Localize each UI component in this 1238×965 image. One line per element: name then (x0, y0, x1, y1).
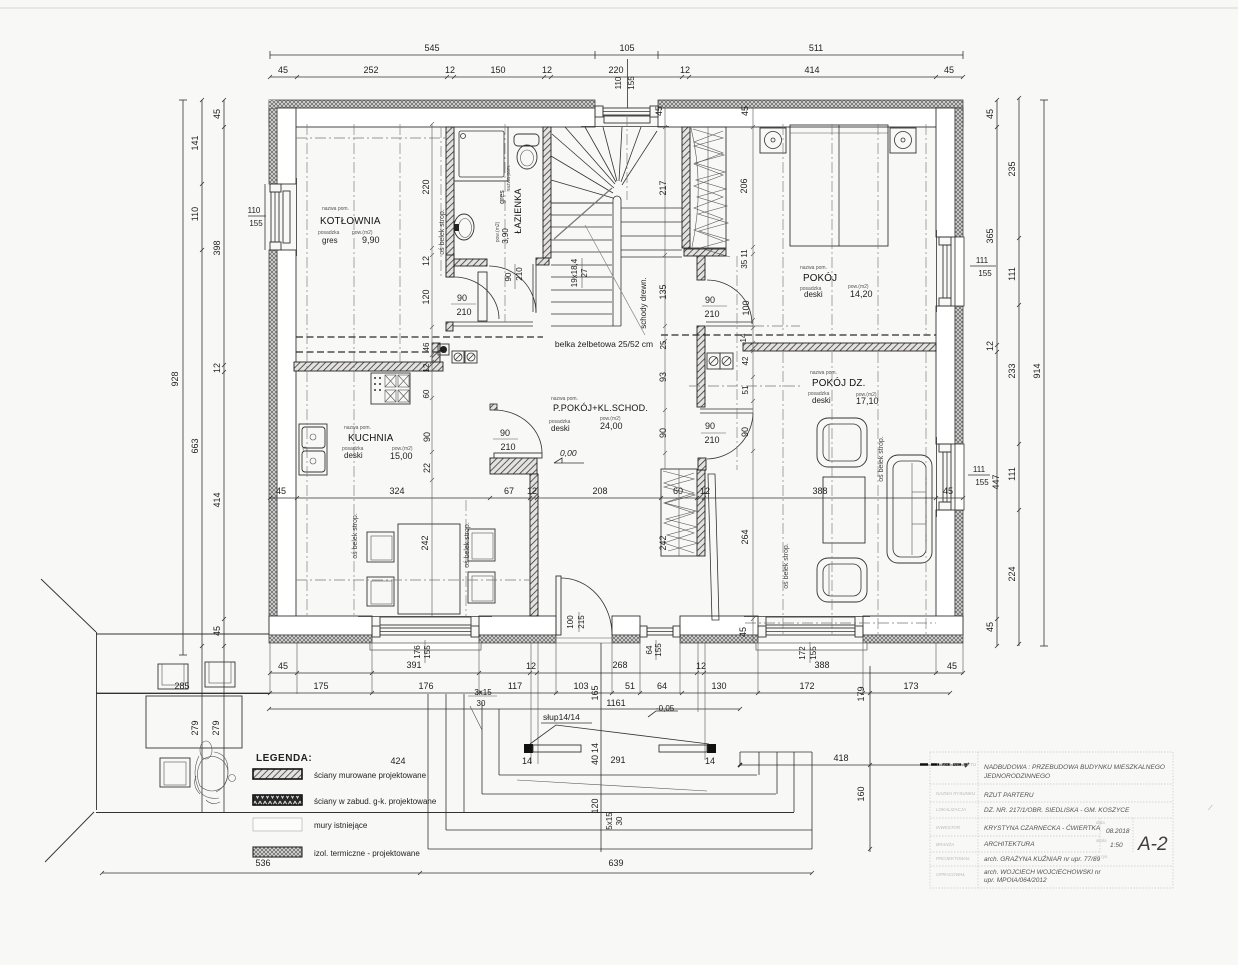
svg-text:nazwa pom.: nazwa pom. (800, 265, 827, 271)
axis horizontal kitchen (296, 579, 530, 581)
svg-text:110: 110 (248, 206, 261, 215)
svg-text:447: 447 (991, 474, 1001, 489)
svg-text:45: 45 (738, 627, 748, 637)
wall horn SE of bathroom (536, 258, 549, 265)
wall jamb west of bath door (446, 255, 454, 277)
svg-text:arch. GRAŻYNA KUŹNIAR nr upr.: arch. GRAŻYNA KUŹNIAR nr upr. 77/89 (984, 854, 1101, 863)
window right lower (111) (937, 437, 965, 517)
svg-text:210: 210 (704, 435, 719, 445)
svg-text:upr. MPOIA/064/2012: upr. MPOIA/064/2012 (984, 877, 1047, 884)
axis A5 bath (504, 124, 506, 322)
person on wheelchair (195, 741, 236, 804)
title texts (983, 764, 1165, 884)
svg-text:105: 105 (619, 43, 634, 53)
svg-text:NAZWA RYSUNKU: NAZWA RYSUNKU (936, 791, 976, 796)
svg-text:14: 14 (739, 333, 748, 342)
svg-text:176: 176 (418, 681, 433, 691)
dim top line 2 (268, 75, 965, 79)
scan artifact line (0, 7, 1238, 9)
svg-text:155: 155 (809, 646, 818, 660)
stairs newel rail (613, 196, 621, 326)
svg-text:słup14/14: słup14/14 (543, 712, 580, 722)
chair g3 (160, 758, 190, 787)
svg-text:220: 220 (421, 179, 431, 194)
svg-text:90: 90 (740, 427, 750, 437)
svg-text:1:50: 1:50 (1110, 842, 1123, 849)
svg-text:P.POKÓJ+KL.SCHOD.: P.POKÓJ+KL.SCHOD. (553, 403, 648, 413)
level -0,05 mark (648, 711, 678, 717)
sliding door sliver (708, 474, 719, 620)
svg-text:izol. termiczne - projektowane: izol. termiczne - projektowane (314, 849, 420, 858)
svg-text:19x18,4: 19x18,4 (570, 258, 579, 287)
svg-text:LEGENDA:: LEGENDA: (256, 753, 312, 764)
wall closet partition (697, 470, 705, 556)
svg-text:12: 12 (212, 363, 222, 373)
svg-text:24,00: 24,00 (600, 421, 623, 431)
title block dim end dashes (920, 763, 967, 766)
svg-text:220: 220 (608, 65, 623, 75)
wall bottom (masonry band) (269, 616, 963, 635)
coffee table (823, 477, 865, 543)
svg-text:210: 210 (704, 309, 719, 319)
dim left line inner (222, 98, 226, 813)
svg-text:nazwa pom.: nazwa pom. (506, 165, 512, 192)
svg-text:45: 45 (947, 661, 957, 671)
svg-text:242: 242 (420, 535, 430, 550)
svg-text:nazwa pom.: nazwa pom. (322, 206, 349, 212)
svg-text:30: 30 (615, 816, 624, 825)
svg-text:414: 414 (212, 492, 222, 507)
porch small diagonal left (470, 706, 482, 730)
svg-text:nazwa pom.: nazwa pom. (344, 425, 371, 431)
wall left (masonry band) (277, 108, 296, 184)
rotated porch labels (190, 685, 866, 829)
plot west edge (96, 632, 98, 810)
svg-text:155: 155 (978, 269, 992, 278)
kitchen table (398, 524, 460, 614)
axis A3 (399, 124, 401, 362)
axis pokoj dz horizontal (689, 385, 800, 387)
svg-text:POKÓJ DZ.: POKÓJ DZ. (812, 378, 866, 389)
dim right line A (995, 98, 999, 648)
door kitchen (90) (490, 404, 542, 458)
svg-text:135: 135 (658, 284, 668, 299)
rotated bottom labels (413, 612, 818, 663)
svg-text:ściany murowane projektowane: ściany murowane projektowane (314, 771, 427, 780)
center axis below building (600, 643, 602, 852)
terrace line y812 (96, 812, 794, 814)
svg-text:35 11: 35 11 (740, 249, 749, 269)
axis A6 kitchen (465, 500, 467, 616)
stairs right flight treads (621, 208, 682, 257)
wall block below bedroom door (697, 326, 705, 407)
svg-text:217: 217 (658, 180, 668, 195)
extension lines from building bottom (270, 637, 963, 764)
svg-text:TEMAT PROJEKTU: TEMAT PROJEKTU (936, 762, 977, 767)
axis horizontal pokojdz bottom (745, 622, 936, 624)
insulation top (269, 100, 963, 108)
lower closet with hangers (661, 469, 698, 556)
wall kitchen/hall L horizontal (490, 458, 537, 474)
svg-text:155: 155 (975, 478, 989, 487)
svg-text:155: 155 (627, 76, 636, 90)
wall bathroom south bar (454, 259, 487, 266)
svg-text:215: 215 (577, 615, 586, 629)
svg-text:45: 45 (654, 106, 664, 116)
wall right (masonry band) (936, 108, 955, 237)
plot line y634 (96, 633, 269, 635)
svg-text:INWESTOR: INWESTOR (936, 825, 961, 830)
legend swatch mury istniejace (253, 818, 302, 831)
svg-text:14: 14 (590, 743, 600, 753)
porch step left verticals (428, 694, 499, 849)
axis horizontal bedroom south (753, 325, 800, 327)
porch step bottoms (428, 775, 812, 849)
svg-text:160: 160 (856, 786, 866, 801)
chair k4 (468, 572, 495, 603)
chair k1 (367, 532, 394, 562)
svg-text:291: 291 (610, 755, 625, 765)
svg-text:-0,05: -0,05 (656, 704, 675, 713)
svg-text:179: 179 (856, 686, 866, 701)
desk (146, 696, 242, 748)
svg-text:45: 45 (740, 106, 750, 116)
svg-text:1161: 1161 (606, 698, 625, 708)
dim vertical x868 (868, 666, 872, 852)
svg-text:100: 100 (741, 300, 751, 315)
room lazienka (rotated) (495, 165, 523, 244)
wall schody/szafa (682, 127, 690, 248)
axis A1 (306, 124, 308, 616)
svg-text:176: 176 (413, 645, 422, 659)
svg-text:data: data (1096, 820, 1105, 825)
svg-text:17,10: 17,10 (856, 396, 879, 406)
dim bottom B1 (268, 671, 965, 675)
insulation right (955, 108, 963, 237)
stairs going line (554, 188, 612, 239)
title faint row captions (936, 762, 977, 877)
svg-text:268: 268 (612, 660, 627, 670)
svg-text:42: 42 (741, 356, 750, 365)
wall hall/pokoj dz horizontal (743, 343, 936, 351)
room kuchnia (342, 425, 413, 461)
svg-text:224: 224 (1007, 566, 1017, 581)
svg-text:285: 285 (174, 681, 189, 691)
level 0,00 mark hall (554, 458, 584, 463)
plot diagonal top (41, 579, 96, 632)
svg-text:08.2018: 08.2018 (1106, 828, 1130, 835)
legend swatch izolacja (253, 847, 302, 857)
svg-text:deski: deski (551, 424, 570, 433)
svg-text:22: 22 (422, 463, 432, 473)
stove (371, 373, 410, 404)
svg-text:NADBUDOWA : PRZEBUDOWA BUDYNK: NADBUDOWA : PRZEBUDOWA BUDYNKU MIESZKALN… (984, 764, 1165, 771)
svg-text:deski: deski (344, 451, 363, 460)
svg-text:12: 12 (526, 661, 536, 671)
svg-text:100: 100 (566, 615, 575, 629)
washer boxes hall (707, 353, 733, 369)
svg-text:OPRACOWAŁ: OPRACOWAŁ (936, 872, 966, 877)
svg-text:111: 111 (1007, 467, 1017, 481)
window bottom W2 (64) (640, 626, 680, 637)
stairs lower flight treads (551, 203, 621, 326)
chair g2 (205, 662, 235, 687)
dim right line B (1017, 96, 1021, 646)
dim mid horizontal line (268, 496, 965, 500)
svg-text:155: 155 (423, 645, 432, 659)
svg-text:90: 90 (457, 293, 467, 303)
window left (110) (270, 178, 297, 256)
legend swatch gk (253, 795, 302, 805)
dim right window upper 111/155 (970, 265, 996, 267)
axis horizontal kotlownia (296, 137, 446, 139)
beam left pair (296, 336, 543, 338)
svg-text:398: 398 (212, 240, 222, 255)
svg-text:536: 536 (255, 858, 270, 868)
toilet (514, 134, 539, 169)
svg-text:12: 12 (422, 363, 431, 372)
dim left line 928 (179, 100, 187, 655)
wall block corridor west (446, 322, 453, 331)
svg-text:14: 14 (705, 756, 715, 766)
svg-text:oś belek strop.: oś belek strop. (464, 522, 471, 568)
wall kitchen north bar (294, 362, 443, 371)
svg-text:165: 165 (590, 685, 600, 700)
svg-text:111: 111 (973, 465, 986, 474)
svg-text:51: 51 (741, 385, 750, 394)
dim line 418 (738, 763, 969, 767)
nightstand right with lamp (890, 128, 916, 153)
porch step right verticals (740, 752, 812, 849)
wall corridor south edge lines (452, 322, 533, 326)
svg-text:POKÓJ: POKÓJ (803, 273, 837, 284)
svg-text:155: 155 (249, 219, 263, 228)
svg-text:RZUT PARTERU: RZUT PARTERU (984, 792, 1034, 799)
dim left line mid (200, 98, 204, 813)
svg-text:45: 45 (944, 65, 954, 75)
door bottom entry (100) (548, 576, 620, 643)
svg-text:141: 141 (190, 135, 200, 150)
svg-text:oś belek strop.: oś belek strop. (439, 209, 446, 255)
svg-text:90: 90 (705, 421, 715, 431)
svg-text:110: 110 (190, 207, 200, 221)
insulation left (269, 108, 277, 184)
bottom long line 536/639 (100, 871, 814, 875)
axis A2 (353, 124, 355, 616)
svg-text:67: 67 (504, 486, 514, 496)
wall kotlownia/lazienka (446, 127, 454, 277)
svg-text:45: 45 (943, 486, 953, 496)
svg-text:279: 279 (211, 720, 221, 735)
axis A9 (782, 124, 784, 334)
wardrobe with hangers (690, 127, 730, 257)
dim top window axis (627, 59, 629, 108)
svg-text:663: 663 (190, 438, 200, 453)
dim interior column x665 (663, 108, 667, 469)
chair k3 (468, 529, 495, 561)
svg-text:ściany w zabud. g-k. projektow: ściany w zabud. g-k. projektowane (314, 797, 437, 806)
dim interior column x432 (430, 122, 434, 498)
sink double (299, 424, 327, 475)
svg-text:mury istniejące: mury istniejące (314, 821, 368, 830)
svg-text:deski: deski (812, 396, 831, 405)
wall stub bedroom door jamb (697, 256, 705, 280)
door bathroom (90) leaf+arcs (454, 266, 536, 321)
dim top line 1 (270, 51, 963, 59)
armchair bottom (817, 558, 867, 602)
svg-text:172: 172 (799, 681, 814, 691)
dim interior column x432 lower 242 (431, 498, 433, 616)
svg-text:gres: gres (322, 236, 338, 245)
axis A12 (925, 124, 927, 334)
room kotlownia (318, 206, 381, 245)
axis A10 (831, 124, 833, 334)
svg-text:12: 12 (527, 486, 537, 496)
svg-text:nazwa pom.: nazwa pom. (551, 396, 578, 402)
axis A4 bath (440, 127, 442, 277)
svg-text:150: 150 (490, 65, 505, 75)
svg-text:40: 40 (590, 755, 600, 765)
porch diagonal (517, 780, 707, 791)
wall szafa bottom bar (684, 249, 726, 256)
svg-text:545: 545 (424, 43, 439, 53)
room pokoj (800, 265, 873, 299)
svg-text:schody drewn.: schody drewn. (639, 277, 648, 329)
svg-text:365: 365 (985, 228, 995, 243)
door bedroom (90) (707, 280, 752, 324)
svg-text:235: 235 (1007, 161, 1017, 176)
nightstand left with lamp (760, 128, 786, 153)
svg-text:93: 93 (658, 372, 668, 382)
svg-text:90: 90 (500, 428, 510, 438)
svg-text:deski: deski (804, 290, 823, 299)
svg-text:120: 120 (590, 798, 600, 813)
svg-text:90: 90 (705, 295, 715, 305)
svg-text:210: 210 (456, 307, 471, 317)
wall kitchen/hall vertical (530, 474, 538, 616)
room pokoj dz (808, 370, 879, 406)
axis A8 bedroom hall (736, 256, 738, 470)
svg-text:264: 264 (740, 529, 750, 544)
svg-text:206: 206 (739, 178, 749, 193)
wall kitchen stub vertical (432, 343, 440, 362)
svg-text:511: 511 (809, 43, 823, 53)
svg-text:51: 51 (625, 681, 635, 691)
svg-text:210: 210 (515, 267, 524, 281)
svg-text:111: 111 (1007, 267, 1017, 281)
axis A7 stairs (626, 115, 628, 200)
corner insulation top-left (269, 100, 277, 108)
shower (454, 127, 508, 181)
svg-text:oś belek strop.: oś belek strop. (783, 543, 790, 589)
svg-text:155: 155 (654, 643, 663, 657)
slup label underline (541, 722, 592, 724)
wall bedroom south edge lines (706, 322, 753, 326)
svg-text:LOKALIZACJA: LOKALIZACJA (936, 807, 966, 812)
window bottom W1 (176) (358, 617, 492, 651)
chair k2 (367, 577, 394, 606)
os belek labels (352, 209, 885, 589)
svg-text:279: 279 (190, 720, 200, 735)
svg-text:111: 111 (976, 256, 989, 265)
svg-text:BRANŻA: BRANŻA (936, 841, 954, 847)
svg-text:5x15: 5x15 (605, 812, 614, 830)
svg-text:3,90: 3,90 (501, 228, 510, 244)
armchair top (817, 418, 867, 467)
sofa (887, 455, 932, 563)
svg-text:173: 173 (903, 681, 918, 691)
svg-text:175: 175 (313, 681, 328, 691)
svg-text:60: 60 (673, 486, 683, 496)
svg-text:nr rys.: nr rys. (1096, 854, 1109, 859)
svg-text:45: 45 (985, 109, 995, 119)
svg-text:25: 25 (659, 340, 668, 349)
svg-text:418: 418 (833, 753, 848, 763)
svg-text:928: 928 (170, 371, 180, 386)
dim left window 110/155 (248, 184, 266, 250)
svg-text:15,00: 15,00 (390, 451, 413, 461)
svg-text:64: 64 (657, 681, 667, 691)
svg-text:120: 120 (421, 289, 431, 304)
svg-text:skala: skala (1096, 838, 1107, 843)
dim right window lower 111/155 (968, 474, 990, 476)
svg-text:130: 130 (711, 681, 726, 691)
svg-text:30: 30 (477, 699, 486, 708)
window right upper (111) (937, 230, 965, 312)
dim right line C (1040, 100, 1048, 646)
svg-text:208: 208 (592, 486, 607, 496)
svg-text:639: 639 (608, 858, 623, 868)
svg-text:45: 45 (985, 622, 995, 632)
svg-text:45: 45 (276, 486, 286, 496)
svg-text:KUCHNIA: KUCHNIA (348, 433, 394, 444)
legend swatch murowane (253, 769, 302, 779)
svg-text:64: 64 (645, 645, 654, 654)
svg-text:0,00: 0,00 (560, 448, 577, 458)
svg-text:110: 110 (614, 76, 623, 89)
svg-text:252: 252 (363, 65, 378, 75)
svg-text:414: 414 (804, 65, 819, 75)
svg-text:12: 12 (700, 486, 710, 496)
slup leader lines (530, 725, 709, 744)
window top (220) (581, 106, 669, 127)
svg-text:45: 45 (212, 109, 222, 119)
plot line y693 part (96, 693, 270, 695)
post right (659, 744, 716, 753)
meter boxes (438, 344, 477, 363)
wall edge hall north piece (533, 264, 536, 312)
svg-text:ARCHITEKTURA: ARCHITEKTURA (983, 841, 1035, 848)
svg-text:12: 12 (696, 661, 706, 671)
svg-text:242: 242 (658, 535, 668, 550)
stairs winder fan (551, 127, 657, 203)
chair g1 (158, 664, 188, 689)
svg-text:A-2: A-2 (1137, 834, 1168, 855)
svg-text:belka żelbetowa 25/52 cm: belka żelbetowa 25/52 cm (555, 339, 653, 349)
svg-text:60: 60 (422, 389, 431, 398)
svg-text:391: 391 (406, 660, 421, 670)
svg-text:12: 12 (445, 65, 455, 75)
svg-text:27: 27 (580, 268, 589, 277)
svg-text:12: 12 (985, 341, 995, 351)
svg-text:914: 914 (1032, 363, 1042, 378)
window bottom W3 (172) (744, 617, 870, 651)
svg-text:JEDNORODZINNEGO: JEDNORODZINNEGO (983, 773, 1050, 780)
svg-text:46: 46 (422, 342, 431, 351)
axis A11 (877, 124, 879, 334)
svg-text:PROJEKTOWAŁ: PROJEKTOWAŁ (936, 856, 970, 861)
bed (790, 125, 888, 246)
